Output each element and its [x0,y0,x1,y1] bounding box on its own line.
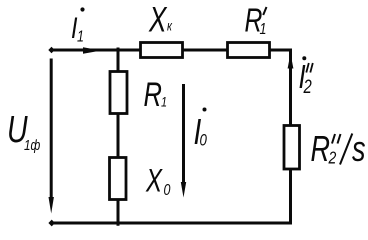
wire bottom horizontal [52,222,292,225]
label I"2 [299,56,313,97]
resistor R'1 box [228,43,270,58]
svg-text:R: R [311,128,330,169]
svg-text:0: 0 [200,131,208,150]
node bottom-left terminal [48,220,55,227]
label Xk [148,0,173,39]
label I0 [194,108,208,152]
svg-text:X: X [148,0,168,39]
wire top horizontal [52,49,292,52]
svg-text:X: X [145,162,163,198]
svg-text:0: 0 [164,182,171,200]
node top-left terminal [48,47,54,53]
svg-text:1: 1 [77,28,84,46]
label X0 [145,162,170,199]
resistor R"2/s box [284,126,300,170]
current arrow I1 (top wire, pointing right) [83,47,102,54]
svg-text:1ф: 1ф [24,137,40,154]
resistor R1 box [110,72,127,114]
svg-text:s: s [352,128,366,169]
svg-text:1: 1 [260,21,267,39]
reactance X0 box [110,158,127,200]
svg-text:2: 2 [303,76,313,97]
label U1f [7,109,40,153]
wire middle branch vertical [117,48,120,226]
current arrow I0 (middle, pointing down) [181,84,186,198]
label I1 [71,7,85,46]
wire right vertical [289,49,292,224]
svg-text:R: R [144,77,162,114]
svg-text:2: 2 [328,148,337,168]
svg-text:1: 1 [161,94,167,110]
reactance Xk box [141,43,183,58]
label R"2/s [311,128,366,169]
label R1 [144,77,168,114]
current arrow I"2 (right wire, pointing up) [288,54,294,69]
voltage arrow U1f (left, pointing down) [49,59,54,214]
label R'1 [245,3,267,39]
